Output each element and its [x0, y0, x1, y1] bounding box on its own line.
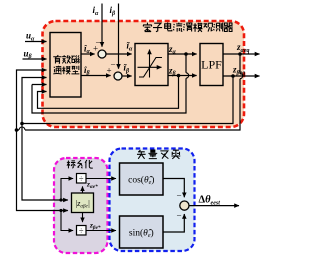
cos block	[120, 163, 164, 195]
left vertical A	[17, 70, 47, 130]
z_alpha_e* wire to cos	[86, 178, 116, 180]
cos out to sum3	[163, 179, 184, 198]
branch to divider 2	[61, 211, 73, 231]
sin block	[120, 216, 164, 248]
normalization box title 标幺化	[67, 160, 93, 168]
divider block 1	[77, 174, 87, 184]
svg-text:cos(θ̂e): cos(θ̂e)	[128, 174, 154, 186]
wire flux out row1 to sum1	[81, 53, 95, 55]
feedback z_beta_eq line	[22, 76, 233, 124]
wire LPF out z_beta_eq	[223, 75, 260, 77]
junction dots	[184, 52, 188, 56]
wire sum1 to sat block	[106, 53, 132, 55]
z_beta_e* wire to sin	[86, 230, 116, 232]
summing junction 1	[98, 50, 106, 58]
wire i_alpha down into sum1	[101, 4, 103, 47]
input u_beta	[23, 58, 47, 60]
input u_alpha	[25, 41, 47, 43]
svg-text:÷: ÷	[79, 225, 84, 235]
magnitude block |z_abe|	[72, 193, 94, 213]
wire flux out row2 to sum2	[81, 75, 111, 77]
svg-text:−: −	[177, 211, 182, 221]
sin out to sum3	[163, 214, 184, 232]
title 定子电流滑模观测器	[143, 22, 233, 31]
magnitude outputs up/down	[82, 186, 84, 193]
output delta theta	[189, 205, 239, 207]
blue dashed container: vector cross product	[110, 149, 195, 252]
plus/minus signs	[93, 38, 182, 221]
branch to divider 1	[61, 179, 73, 201]
LPF block	[200, 44, 223, 86]
wire i_beta down into sum2	[118, 4, 120, 69]
svg-text:LPF: LPF	[201, 58, 222, 72]
wire LPF out z_alpha_eq	[223, 53, 260, 55]
sliding-mode saturation block	[135, 44, 168, 86]
feedback z_alpha_eq line	[17, 54, 241, 130]
summing junction 3	[180, 201, 189, 210]
flux model block 有效磁通模型	[50, 33, 81, 98]
summing junction 2	[114, 72, 122, 80]
red dashed container: stator current sliding-mode observer	[43, 21, 245, 127]
wire sum2 to sat block	[122, 75, 132, 77]
svg-text:sin(θ̂e): sin(θ̂e)	[129, 227, 154, 239]
feedback z_alpha loop	[32, 54, 186, 113]
svg-text:÷: ÷	[79, 173, 84, 183]
feedback z_beta loop	[38, 76, 179, 109]
vector cross product title 矢量叉乘	[137, 150, 180, 159]
magenta dashed container: normalization	[54, 158, 108, 253]
svg-text:−: −	[177, 191, 182, 201]
svg-text:−: −	[111, 60, 116, 70]
divider block 2	[77, 226, 87, 236]
wire sat z_alpha to LPF	[168, 53, 197, 55]
wire sat z_beta to LPF	[168, 75, 197, 77]
svg-text:−: −	[96, 38, 101, 48]
left vertical B	[22, 78, 47, 124]
